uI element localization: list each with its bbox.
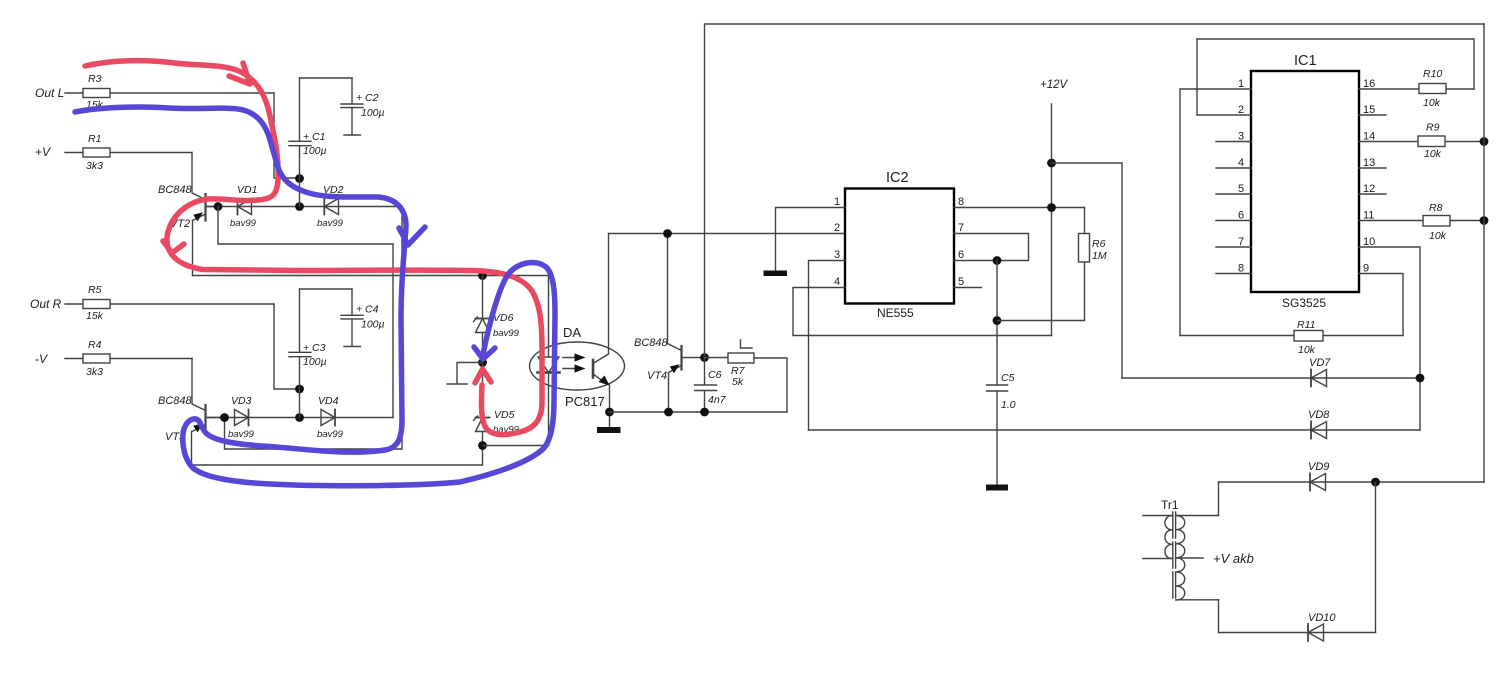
transistor VT3 bbox=[192, 405, 225, 432]
svg-text:bav99: bav99 bbox=[230, 218, 257, 229]
phototransistor of DA bbox=[593, 354, 610, 386]
svg-text:5k: 5k bbox=[732, 376, 744, 388]
wire VT2 emitter down bbox=[192, 221, 194, 276]
wire opto collector up bbox=[608, 234, 610, 355]
wire lower diode row bbox=[206, 417, 394, 419]
svg-text:VD10: VD10 bbox=[1308, 612, 1336, 624]
capacitor C3 bbox=[289, 289, 311, 418]
diode VD6 bbox=[474, 317, 490, 333]
junction VT4 collector node bbox=[700, 353, 709, 362]
svg-text:13: 13 bbox=[1363, 157, 1375, 169]
wire bottom ground rail bbox=[610, 411, 788, 413]
wire IC2 pin8 to R6 top bbox=[954, 207, 1085, 209]
svg-text:IC2: IC2 bbox=[886, 170, 909, 186]
diode VD2 bbox=[324, 199, 338, 215]
svg-text:3k3: 3k3 bbox=[86, 366, 103, 378]
annotation red curve bbox=[85, 61, 542, 435]
svg-text:10k: 10k bbox=[1423, 97, 1441, 109]
junction VD9 / VD10 link bbox=[1371, 478, 1380, 487]
svg-text:15: 15 bbox=[1363, 104, 1375, 116]
wire +V to VT2 base bbox=[192, 153, 206, 200]
wire Out L down to C1 node bbox=[274, 93, 300, 178]
svg-text:VD9: VD9 bbox=[1308, 461, 1329, 473]
svg-text:1.0: 1.0 bbox=[1001, 399, 1016, 411]
wire VT4 base up bbox=[667, 234, 669, 344]
svg-text:+ C2: + C2 bbox=[356, 92, 379, 104]
resistor R1 bbox=[65, 148, 192, 157]
svg-text:-V: -V bbox=[35, 352, 48, 366]
svg-text:Out R: Out R bbox=[30, 297, 62, 311]
annotation red arrowhead 1 bbox=[229, 63, 250, 84]
svg-text:10k: 10k bbox=[1429, 230, 1447, 242]
wire R7 to ground rail bbox=[754, 358, 787, 412]
wire -V to VT3 base bbox=[192, 359, 206, 411]
wire top long rail bbox=[705, 24, 1485, 358]
wire IC1 pin13 stub bbox=[1359, 167, 1386, 169]
wire VD5 to bottom node bbox=[482, 432, 484, 446]
svg-text:1: 1 bbox=[834, 196, 840, 208]
diode VD3 bbox=[235, 410, 249, 426]
junction C5 top node bbox=[993, 316, 1002, 325]
wire R10 feedback rail bbox=[1197, 39, 1474, 89]
junction opto emitter / ground rail bbox=[605, 408, 614, 417]
svg-text:bav99: bav99 bbox=[317, 218, 344, 229]
svg-text:IC1: IC1 bbox=[1294, 53, 1317, 69]
junction VD5 bottom bbox=[478, 441, 487, 450]
svg-text:14: 14 bbox=[1363, 131, 1375, 143]
wire IC1 pin6 stub bbox=[1216, 220, 1251, 222]
wire VD7 row bbox=[1122, 377, 1420, 379]
svg-text:NE555: NE555 bbox=[877, 306, 914, 320]
junction Out R / C3 bbox=[295, 385, 304, 394]
svg-text:8: 8 bbox=[1238, 263, 1244, 275]
capacitor C4 bbox=[341, 289, 363, 347]
svg-text:+ C3: + C3 bbox=[303, 342, 326, 354]
resistor R6 bbox=[1079, 208, 1090, 263]
svg-text:10k: 10k bbox=[1298, 344, 1316, 356]
wire VD6 branch bbox=[482, 276, 484, 319]
transformer Tr1 secondary bbox=[1176, 516, 1219, 601]
transistor VT4 bbox=[668, 344, 705, 374]
svg-text:6: 6 bbox=[958, 249, 964, 261]
wire VT2 collector cross-link down to lower row bbox=[218, 207, 393, 418]
capacitor C6 bbox=[695, 358, 717, 413]
svg-text:R1: R1 bbox=[88, 133, 101, 145]
svg-text:VT4: VT4 bbox=[647, 370, 667, 382]
wire VT4 collector to R7 bbox=[705, 357, 729, 359]
controller IC1 body bbox=[1251, 71, 1359, 292]
wire center node to VD5 bbox=[482, 363, 484, 418]
capacitor C2 bbox=[341, 78, 363, 135]
wire right rail down bbox=[1483, 24, 1485, 482]
wire IC1 pin2 up bbox=[1197, 39, 1251, 115]
svg-text:11: 11 bbox=[1363, 210, 1374, 222]
wire C5 node to R6 bottom bbox=[997, 262, 1085, 321]
svg-text:VD8: VD8 bbox=[1308, 409, 1330, 421]
svg-text:1: 1 bbox=[1238, 78, 1244, 90]
ground (IC2 pin1) bbox=[764, 271, 788, 277]
junction pin6 node bbox=[993, 256, 1002, 265]
diode VD9 bbox=[1310, 474, 1326, 491]
annotation red arrowhead 2 bbox=[163, 241, 184, 253]
wire VD10 to VD9 node bbox=[1375, 482, 1377, 633]
wire IC1 pin7 stub bbox=[1216, 246, 1251, 248]
svg-text:R6: R6 bbox=[1092, 238, 1106, 250]
wire IC2 pin7-pin6 loop bbox=[954, 234, 1029, 261]
LED of DA bbox=[538, 276, 560, 446]
svg-text:3: 3 bbox=[1238, 131, 1244, 143]
wire opto emitter down bbox=[609, 385, 611, 427]
transistor VT2 bbox=[193, 194, 219, 221]
junction R8 / right rail bbox=[1480, 216, 1489, 225]
diode VD8 bbox=[1311, 422, 1327, 439]
svg-text:12: 12 bbox=[1363, 183, 1375, 195]
svg-text:100µ: 100µ bbox=[303, 145, 327, 157]
resistor R4 bbox=[65, 354, 192, 363]
svg-text:BC848: BC848 bbox=[158, 184, 193, 196]
resistor R5 bbox=[65, 300, 274, 309]
ground (under opto) bbox=[597, 427, 621, 433]
svg-text:+12V: +12V bbox=[1040, 79, 1069, 91]
capacitor C1 bbox=[289, 78, 311, 207]
svg-text:+ C1: + C1 bbox=[303, 131, 325, 143]
resistor R9 bbox=[1359, 136, 1484, 147]
annotation blue curve bbox=[75, 107, 555, 486]
svg-text:R10: R10 bbox=[1423, 68, 1442, 80]
diode VD10 bbox=[1308, 624, 1324, 641]
optocoupler DA body bbox=[530, 342, 625, 390]
wire VT3 emitter to VD5 bottom bbox=[192, 432, 483, 466]
svg-text:R9: R9 bbox=[1426, 122, 1440, 134]
svg-text:R11: R11 bbox=[1297, 319, 1315, 331]
svg-text:PC817: PC817 bbox=[565, 394, 605, 409]
svg-text:+V: +V bbox=[35, 145, 51, 159]
svg-text:1M: 1M bbox=[1092, 250, 1107, 262]
junction +12V / VD7 branch bbox=[1047, 159, 1056, 168]
light arrows bbox=[563, 353, 586, 372]
ground (C5) bbox=[986, 485, 1008, 491]
wire IC1 pin9 to R11 bbox=[1359, 274, 1403, 336]
resistor R8 bbox=[1359, 216, 1484, 227]
wire secondary bottom to VD10 bbox=[1218, 600, 1220, 633]
svg-text:BC848: BC848 bbox=[634, 337, 669, 349]
wire VD9 row bbox=[1219, 481, 1485, 483]
wire VD10 row bbox=[1219, 632, 1376, 634]
junction VT4 base / pin2 rail bbox=[663, 229, 672, 238]
annotation blue arrowhead 1 bbox=[399, 227, 425, 245]
junction VT2 collector bbox=[214, 202, 223, 211]
svg-text:7: 7 bbox=[958, 222, 964, 234]
wire lower rail bbox=[300, 288, 353, 290]
svg-text:5: 5 bbox=[958, 276, 964, 288]
transformer Tr1 core bbox=[1173, 512, 1176, 602]
diode VD1 bbox=[238, 199, 252, 215]
trimmer R7 bbox=[728, 340, 754, 363]
svg-text:bav99: bav99 bbox=[317, 429, 344, 440]
svg-text:2: 2 bbox=[1238, 104, 1244, 116]
svg-text:SG3525: SG3525 bbox=[1282, 296, 1326, 310]
wire VD6 to center node bbox=[482, 333, 484, 363]
wire VT4 emitter down bbox=[668, 373, 670, 413]
svg-text:R5: R5 bbox=[88, 284, 102, 296]
svg-text:C6: C6 bbox=[708, 369, 722, 381]
capacitor C5 bbox=[987, 385, 1008, 391]
svg-text:Out L: Out L bbox=[35, 86, 64, 100]
svg-text:9: 9 bbox=[1363, 263, 1369, 275]
junction VT4 emitter / ground rail bbox=[664, 408, 673, 417]
wire IC1 pin4 stub bbox=[1216, 167, 1251, 169]
junction Out L / C1 bbox=[295, 174, 304, 183]
annotation red arrowhead 3 bbox=[475, 369, 491, 383]
wire VD8 row bbox=[809, 429, 1421, 431]
wire pin6 node down / C5 bbox=[996, 261, 998, 485]
wire IC1 pin10 down bbox=[1359, 247, 1420, 430]
junction VD6 top bbox=[478, 271, 487, 280]
svg-text:VD6: VD6 bbox=[493, 312, 514, 324]
junction C3 bottom bbox=[295, 413, 304, 422]
wire secondary top to VD9 bbox=[1218, 482, 1220, 516]
wire +12V down bbox=[1051, 104, 1053, 336]
wire IC2 pin1 to ground bbox=[776, 208, 846, 271]
wire IC1 pin1 to R11 bbox=[1180, 89, 1251, 336]
svg-text:16: 16 bbox=[1363, 78, 1375, 90]
junction C1 bottom bbox=[295, 202, 304, 211]
resistor R11 bbox=[1180, 331, 1403, 342]
svg-text:VD3: VD3 bbox=[231, 395, 252, 407]
diode VD7 bbox=[1311, 370, 1327, 387]
diode VD5 bbox=[474, 416, 490, 432]
wire opto collector to IC2 pin2 bbox=[609, 233, 846, 235]
svg-text:Tr1: Tr1 bbox=[1161, 498, 1179, 512]
svg-text:R3: R3 bbox=[88, 73, 102, 85]
junction R9 / right rail bbox=[1480, 137, 1489, 146]
svg-text:4: 4 bbox=[1238, 157, 1244, 169]
wire IC2 pin3 down bbox=[809, 261, 846, 431]
wire IC1 pin3 stub bbox=[1216, 141, 1251, 143]
svg-text:100µ: 100µ bbox=[361, 319, 385, 331]
junction C6 bottom bbox=[700, 408, 709, 417]
svg-text:100µ: 100µ bbox=[303, 356, 327, 368]
svg-text:100µ: 100µ bbox=[361, 107, 385, 119]
wire emitter rail to LED anode bbox=[193, 275, 549, 277]
svg-text:15k: 15k bbox=[86, 310, 104, 322]
wire IC2 pin5 stub bbox=[954, 287, 982, 289]
junction +12V / pin8 bbox=[1047, 203, 1056, 212]
svg-text:7: 7 bbox=[1238, 236, 1244, 248]
junction VD7 / pin10 wire bbox=[1416, 374, 1425, 383]
svg-text:C5: C5 bbox=[1001, 372, 1015, 384]
wire upper row cross-link down to VT3 collector bbox=[225, 207, 403, 450]
wire IC2 pin4 to +12V rail bbox=[793, 288, 1052, 336]
svg-text:+V akb: +V akb bbox=[1213, 551, 1254, 566]
op-amp/timer IC2 body bbox=[845, 189, 954, 304]
svg-text:VD1: VD1 bbox=[237, 184, 257, 196]
annotation blue arrowhead 2 bbox=[474, 347, 495, 359]
wire upper rail bbox=[300, 77, 353, 79]
svg-text:VD5: VD5 bbox=[494, 409, 515, 421]
svg-text:4: 4 bbox=[834, 276, 840, 288]
svg-text:bav99: bav99 bbox=[228, 429, 255, 440]
junction center node bbox=[478, 358, 487, 367]
svg-text:4n7: 4n7 bbox=[708, 394, 727, 406]
resistor R3 bbox=[65, 89, 274, 98]
svg-text:BC848: BC848 bbox=[158, 395, 193, 407]
svg-text:R8: R8 bbox=[1429, 202, 1443, 214]
wire IC1 pin12 stub bbox=[1359, 193, 1386, 195]
svg-text:10k: 10k bbox=[1424, 148, 1442, 160]
svg-text:+ C4: + C4 bbox=[356, 304, 379, 316]
svg-text:bav99: bav99 bbox=[493, 328, 520, 339]
junction VT3 collector bbox=[220, 413, 229, 422]
svg-text:VD7: VD7 bbox=[1309, 357, 1331, 369]
transformer Tr1 primary bbox=[1143, 516, 1172, 559]
svg-text:6: 6 bbox=[1238, 210, 1244, 222]
svg-text:VD4: VD4 bbox=[318, 395, 339, 407]
diode VD4 bbox=[321, 410, 335, 426]
resistor R10 bbox=[1359, 84, 1474, 94]
svg-text:2: 2 bbox=[834, 222, 840, 234]
svg-text:8: 8 bbox=[958, 196, 964, 208]
terminal stub at center node bbox=[447, 363, 483, 385]
svg-text:R4: R4 bbox=[88, 339, 102, 351]
wire Out R down to C3 node bbox=[274, 304, 300, 389]
svg-text:10: 10 bbox=[1363, 236, 1375, 248]
wire IC1 pin5 stub bbox=[1216, 193, 1251, 195]
wire IC1 pin8 stub bbox=[1216, 273, 1251, 275]
wire IC1 pin15 stub bbox=[1359, 114, 1386, 116]
svg-text:3: 3 bbox=[834, 249, 840, 261]
svg-text:DA: DA bbox=[563, 325, 581, 340]
svg-text:3k3: 3k3 bbox=[86, 160, 103, 172]
svg-text:5: 5 bbox=[1238, 183, 1244, 195]
wire +12V branch to VD7 bbox=[1052, 163, 1123, 378]
wire upper diode row bbox=[206, 206, 403, 208]
wire bottom node to LED cathode bbox=[483, 445, 549, 447]
